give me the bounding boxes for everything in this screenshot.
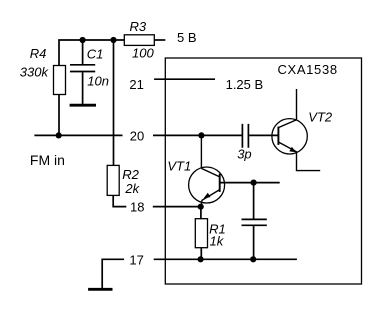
wire VT1 base to right <box>220 182 280 184</box>
svg-text:1.25 В: 1.25 В <box>226 77 264 92</box>
svg-text:2k: 2k <box>124 181 140 196</box>
capacitor 3p plates <box>242 124 248 148</box>
node C1 top junction <box>80 37 86 43</box>
svg-text:FM in: FM in <box>30 152 65 168</box>
wire pin 20 into IC to 3p capacitor <box>153 134 242 136</box>
svg-text:100: 100 <box>132 45 154 60</box>
wire vertical R3 junction down to R2 <box>113 40 115 165</box>
wire R3 right to 5V stub <box>154 39 165 41</box>
svg-text:R3: R3 <box>130 19 147 34</box>
svg-text:21: 21 <box>129 77 143 92</box>
wire FM in to pin 20 <box>34 134 122 136</box>
wire pin 21 stub <box>154 78 215 80</box>
IC box CXA1538 <box>165 58 361 284</box>
resistor R2 <box>107 165 119 195</box>
wire pin 17 to ground <box>102 259 124 288</box>
wire R1 bottom lead <box>200 248 202 260</box>
svg-text:VT1: VT1 <box>167 159 191 174</box>
resistor R1 <box>195 219 207 248</box>
node base-capacitor junction <box>251 180 257 186</box>
svg-text:VT2: VT2 <box>308 110 333 125</box>
svg-text:R2: R2 <box>122 167 139 182</box>
capacitor C1 top lead <box>82 40 84 64</box>
wire R2 bottom to pin 18 <box>113 195 126 206</box>
transistor VT1 <box>201 135 219 177</box>
svg-text:CXA1538: CXA1538 <box>278 62 338 77</box>
resistor R4 <box>54 66 66 95</box>
svg-text:3p: 3p <box>237 146 251 161</box>
wire 3p to VT2 base <box>249 134 278 136</box>
wire C1 bottom lead <box>82 72 84 104</box>
node pin 20 junction <box>198 132 204 138</box>
capacitor C1 plates <box>70 65 95 72</box>
svg-text:10n: 10n <box>87 73 109 88</box>
capacitor C2 top lead <box>253 183 255 219</box>
transistor VT2 <box>272 119 307 154</box>
svg-text:R4: R4 <box>30 46 47 61</box>
wire R4 bottom lead <box>58 95 60 136</box>
svg-text:5 В: 5 В <box>177 30 197 45</box>
wire C2 bottom lead <box>253 226 255 259</box>
resistor R3 <box>124 35 154 46</box>
node C2 bottom junction <box>250 256 256 262</box>
node R3 left junction <box>110 37 116 43</box>
svg-text:18: 18 <box>130 199 144 214</box>
node R1 bottom junction <box>198 256 204 262</box>
svg-text:17: 17 <box>129 253 143 268</box>
node VT1 emitter junction <box>198 204 204 210</box>
svg-text:20: 20 <box>130 129 144 144</box>
wire pin 18 into IC <box>153 206 201 208</box>
svg-text:1k: 1k <box>210 233 225 248</box>
ground below C1 <box>70 104 96 107</box>
svg-text:330k: 330k <box>20 64 50 79</box>
node R4 bottom junction <box>56 132 62 138</box>
capacitor C2 plates <box>242 219 267 225</box>
wire pin 17 rail inside IC <box>154 258 297 260</box>
wire R1 top lead <box>200 207 202 219</box>
ground below pin 17 <box>88 288 112 291</box>
wire top rail from R4 top to R3 left <box>59 40 124 66</box>
svg-text:C1: C1 <box>87 47 104 62</box>
